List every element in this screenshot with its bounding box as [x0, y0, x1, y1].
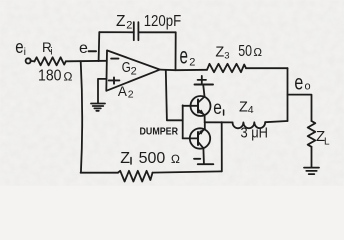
- wire right vertical e_o node: [287, 68, 289, 121]
- wire bottom (Z1 branch): [81, 172, 118, 174]
- positive supply terminal: [195, 84, 214, 86]
- svg-text:4: 4: [248, 104, 254, 116]
- junction e1/Z1: [221, 121, 223, 123]
- svg-text:2: 2: [131, 65, 137, 77]
- inductor Z4: [232, 122, 265, 128]
- wire Z2 left leg: [98, 32, 101, 61]
- capacitor Z2: [134, 22, 139, 40]
- wire emitter Q2 down: [202, 148, 205, 164]
- label e- dash: [89, 50, 96, 52]
- svg-text:3 μH: 3 μH: [241, 124, 269, 141]
- wire Z4 to corner: [265, 121, 287, 122]
- wire dumper feed vertical: [166, 70, 183, 120]
- paper texture: [0, 0, 344, 186]
- svg-text:i: i: [50, 46, 52, 58]
- wire input stub: [30, 60, 34, 63]
- svg-text:o: o: [305, 81, 311, 93]
- wire left vertical (e- to bottom): [81, 61, 83, 172]
- input terminal e_i: [26, 58, 31, 63]
- resistor R1: [34, 57, 65, 65]
- op-amp plus sign: [109, 77, 120, 83]
- svg-text:500: 500: [139, 150, 166, 167]
- svg-text:50: 50: [238, 43, 252, 60]
- svg-text:G: G: [122, 60, 131, 76]
- negative supply terminal: [198, 163, 214, 165]
- label e1 subscript stem: [223, 110, 225, 115]
- wire Z2 right leg: [175, 32, 177, 70]
- wire emitter Q1 to e1: [204, 115, 206, 122]
- svg-text:2: 2: [128, 89, 134, 101]
- svg-text:e: e: [213, 96, 222, 118]
- transistor Q2 (lower): [190, 128, 210, 148]
- op-amp minus sign: [111, 58, 118, 60]
- svg-text:2: 2: [189, 56, 195, 68]
- resistor Z1: [118, 171, 153, 182]
- svg-text:e: e: [79, 40, 88, 57]
- svg-text:Z: Z: [215, 45, 224, 61]
- wire bottom right: [153, 171, 222, 172]
- svg-text:e: e: [15, 37, 23, 58]
- svg-text:2: 2: [126, 20, 132, 32]
- wire e- input: [66, 60, 107, 63]
- resistor Z_L: [308, 121, 316, 147]
- svg-text:Z: Z: [239, 99, 248, 115]
- label Z1 subscript stem: [130, 158, 132, 165]
- svg-text:3: 3: [224, 51, 229, 62]
- wire Z2 top left: [99, 31, 134, 33]
- wire Z2 top right: [138, 31, 175, 33]
- wire right vertical (Z1 to e1): [221, 122, 223, 171]
- svg-text:Ω: Ω: [253, 47, 262, 59]
- svg-text:e: e: [294, 71, 303, 95]
- wire collector stub Q1: [203, 85, 204, 97]
- svg-text:180: 180: [38, 67, 62, 84]
- wire e_o branch: [288, 95, 312, 121]
- svg-text:L: L: [324, 136, 330, 147]
- ground (op-amp + input): [91, 104, 105, 111]
- transistor Q1 (upper): [191, 96, 211, 116]
- wire base rail: [182, 105, 184, 138]
- svg-text:e: e: [180, 43, 189, 69]
- svg-text:Ω: Ω: [171, 152, 180, 166]
- svg-text:Z: Z: [120, 150, 130, 167]
- svg-text:i: i: [24, 46, 26, 58]
- wire Z_L to ground: [311, 147, 313, 167]
- ground (Z_L): [304, 168, 319, 175]
- wire output e2: [160, 69, 207, 72]
- resistor Z3: [207, 64, 246, 72]
- op-amp G2/A2 triangle: [106, 50, 160, 90]
- svg-text:A: A: [118, 84, 127, 99]
- wire e1 node: [205, 121, 233, 123]
- wire Z3 to corner: [246, 67, 288, 69]
- wire collector stub Q2: [204, 122, 206, 128]
- svg-text:DUMPER: DUMPER: [140, 126, 179, 138]
- svg-text:Z: Z: [116, 13, 125, 30]
- svg-text:120pF: 120pF: [144, 13, 182, 30]
- wire op-amp + input to ground: [98, 79, 107, 103]
- svg-text:Ω: Ω: [63, 70, 72, 84]
